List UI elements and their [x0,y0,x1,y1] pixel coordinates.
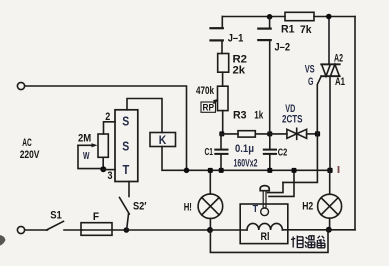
svg-text:T: T [123,163,130,177]
wire from top terminal to right then down to mid rail [26,86,187,170]
svg-text:J–2: J–2 [275,41,291,53]
svg-text:2: 2 [105,111,110,123]
wire sensor cap electrode to rail [269,170,294,196]
wiper arrow RP [214,100,217,103]
svg-text:T: T [253,204,259,215]
svg-text:R1: R1 [281,24,295,36]
thermometer bulb [261,208,269,216]
svg-text:2k: 2k [233,65,246,77]
wire R2 to RP [222,72,224,86]
box thermostat chamber [240,204,288,244]
fuse F [81,223,112,236]
node A1 rail [327,168,332,173]
switch S2' [128,182,130,197]
wire heater lead left [210,229,247,231]
svg-text:J–1: J–1 [228,33,244,45]
wire diac node down and left (gate net) [283,134,317,183]
svg-text:S: S [122,114,129,128]
node H1 bottom [207,227,213,233]
relay contact J-2 [267,14,273,20]
label hengwenxiang (thermostat box) [291,236,325,248]
lamp H1 [209,170,211,194]
wire pin3 to box [103,169,115,171]
wire node to R3 [222,133,238,135]
svg-text:S: S [122,140,129,154]
svg-text:S1: S1 [50,210,62,222]
wire bottom terminal to S1 [26,229,48,231]
node A2 top rail [326,14,332,20]
resistor R2 [218,54,229,73]
wire K bottom to mid rail [162,147,187,171]
lamp H2 [329,170,331,194]
potentiometer 2M body [98,134,108,157]
svg-text:K: K [159,133,167,147]
svg-text:VS: VS [305,64,315,76]
svg-text:7k: 7k [300,24,312,36]
node pot/wiper/pin3 [100,166,106,172]
svg-text:W: W [83,151,90,162]
terminal input bottom [17,226,24,233]
svg-text:S2′: S2′ [133,201,147,213]
svg-text:A2: A2 [334,53,343,65]
scan artifact red speck right [338,166,340,173]
thermometer stem [263,191,266,209]
wire SST box top to K loop [127,99,162,133]
wire heater lead right [282,229,328,231]
wire H2 node to right vertical [329,229,355,231]
svg-text:F: F [93,211,99,223]
wire S1 to fuse [64,229,82,231]
node H2 bottom [326,227,332,233]
switch S1 [47,221,64,230]
wire bottom bypass loop [210,230,328,253]
box SST controller [115,110,138,182]
wiper arrow of potentiometer W [78,144,94,146]
svg-text:2CTS: 2CTS [282,114,303,126]
svg-text:220V: 220V [20,149,40,161]
node diac/gate [315,131,320,136]
heater coil R1 [247,223,282,230]
thermometer T cap [260,186,269,191]
node left drop on rail [184,168,190,174]
wire triac A1 down to rail [329,76,331,170]
relay contact J-1 [221,17,223,29]
svg-text:H2: H2 [302,201,313,213]
svg-text:Rl: Rl [261,231,270,243]
node sensor wire on rail [292,168,297,173]
label box RP [201,102,216,112]
svg-text:1k: 1k [254,109,264,121]
wire junction to H1 node [126,229,210,231]
svg-text:G: G [308,76,314,88]
node RP/C1/R3 [219,131,224,136]
node R3/J2/C2 [267,131,272,136]
node C2 bottom [267,168,272,173]
svg-text:0.1μ: 0.1μ [235,143,254,155]
triac VS [328,17,330,65]
capacitor C2 [269,134,271,150]
svg-text:RP: RP [203,103,215,114]
terminal input top [17,82,24,89]
svg-text:470k: 470k [196,85,215,97]
wire fuse to junction [112,229,126,231]
svg-text:A1: A1 [335,76,345,88]
node C1 bottom [219,168,224,173]
resistor R1 7k [285,12,314,20]
wire gate G to diac node [317,76,321,134]
wire RP bottom to node [222,111,224,134]
top rail wire [222,16,285,18]
node fuse/S2 junction [124,227,130,233]
wire potentiometer bottom to node [102,157,104,169]
wire R3 to node [255,133,270,135]
diac VD 2CTS [270,133,287,135]
svg-text:R2: R2 [233,54,248,66]
capacitor C1 [220,134,222,150]
wire sensor upper electrode [268,182,284,192]
svg-text:3: 3 [108,170,113,182]
scan artifact bottom left [0,235,6,246]
svg-text:160Vx2: 160Vx2 [234,158,258,170]
svg-text:AC: AC [22,137,32,149]
mid rail wire (A1 net) [187,169,331,171]
wire pin2 to potentiometer top [104,122,116,134]
wire wiper return loop left and down [78,145,102,168]
resistor R3 [238,131,255,137]
wire right side down [354,17,356,230]
svg-text:C2: C2 [278,146,288,158]
svg-text:C1: C1 [205,146,214,158]
svg-text:R3: R3 [233,109,247,121]
potentiometer RP 470k body [218,86,229,110]
svg-text:2M: 2M [78,132,91,144]
svg-text:H!: H! [184,202,192,214]
relay coil K [150,133,176,147]
